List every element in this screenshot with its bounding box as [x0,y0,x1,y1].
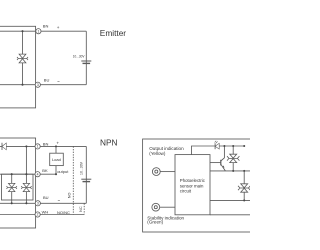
svg-text:3: 3 [37,202,39,206]
svg-text:BU: BU [43,195,49,200]
svg-text:Load: Load [52,157,61,162]
svg-text:1: 1 [37,29,39,33]
svg-text:Photoelectric: Photoelectric [180,178,206,183]
svg-text:NO/NC: NO/NC [57,210,70,215]
svg-text:output: output [57,169,69,174]
svg-text:NPN: NPN [100,138,118,148]
svg-text:Emitter: Emitter [100,28,127,38]
svg-text:BU: BU [44,77,50,82]
svg-text:BK: BK [42,168,48,173]
svg-text:10...30V: 10...30V [73,54,85,58]
svg-text:4: 4 [37,172,39,176]
svg-text:2: 2 [37,213,39,217]
svg-text:NC: NC [79,206,83,212]
svg-text:circuit: circuit [180,189,192,194]
svg-text:3: 3 [37,83,39,87]
svg-text:(Yellow): (Yellow) [149,151,166,156]
svg-text:(Green): (Green) [147,220,163,225]
svg-text:BN: BN [43,23,49,28]
svg-text:+: + [56,141,59,146]
svg-text:1: 1 [37,145,39,149]
svg-text:+: + [57,25,60,30]
svg-text:10...30V: 10...30V [80,161,84,175]
svg-text:BN: BN [43,141,49,146]
svg-text:WH: WH [42,210,49,215]
svg-text:NO: NO [68,193,72,199]
